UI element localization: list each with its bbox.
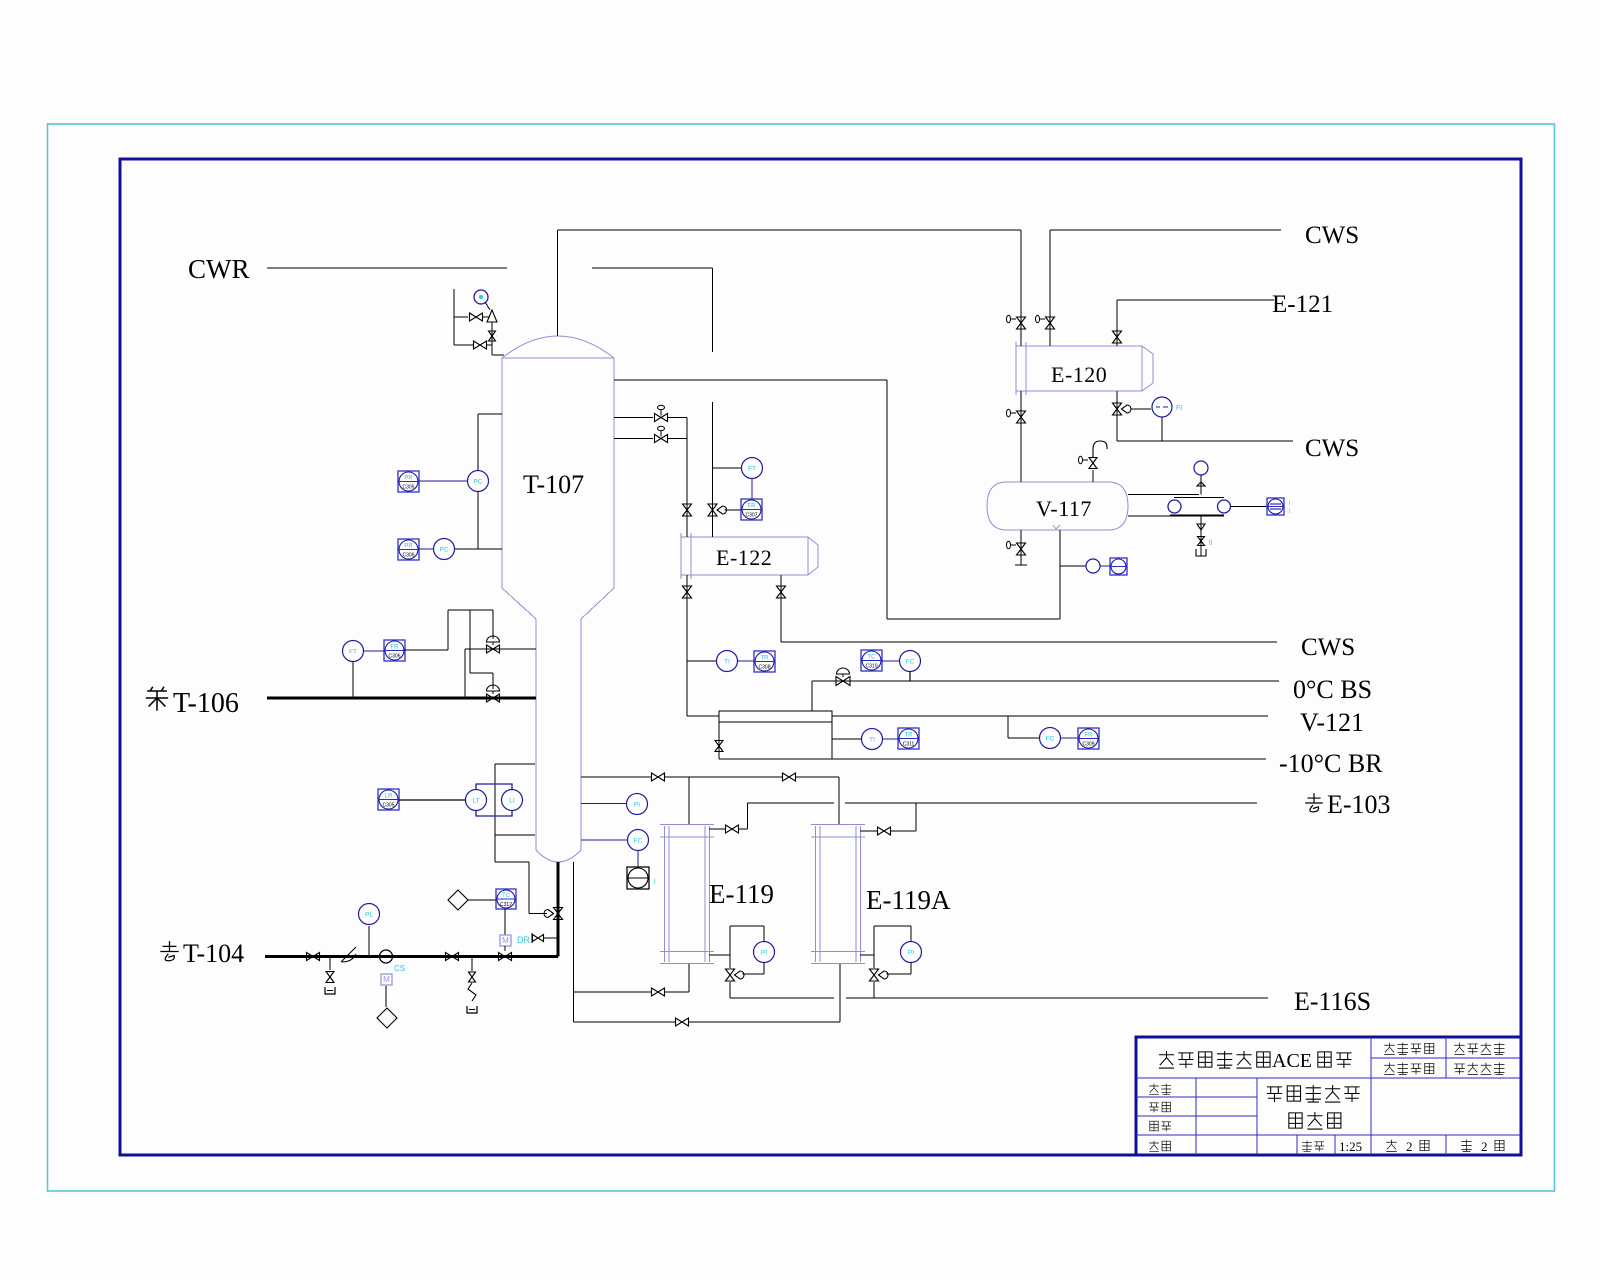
instrument circle on CWS line <box>1152 397 1172 417</box>
TI pair tap <box>832 738 862 740</box>
0C BS line from jacket <box>811 681 813 711</box>
svg-text:FT: FT <box>349 649 357 656</box>
svg-text:C307: C307 <box>746 513 758 519</box>
svg-text:l: l <box>1289 501 1290 507</box>
LI circles <box>466 790 487 811</box>
svg-text:LI: LI <box>509 798 515 805</box>
svg-text:l: l <box>1289 509 1290 515</box>
drum V-117 shell <box>987 482 1005 530</box>
valve <box>1046 317 1055 329</box>
jacket left drain to -10C BR line <box>718 722 720 759</box>
svg-text:FT: FT <box>748 466 756 473</box>
valve <box>652 988 665 996</box>
svg-text:PR: PR <box>404 476 413 482</box>
E-103 header <box>748 802 835 804</box>
gauge circle <box>1218 500 1231 513</box>
svg-text:CWS: CWS <box>1305 435 1359 462</box>
label 去E-103 <box>1305 793 1323 812</box>
T-107 side nozzles to E-122 <box>614 417 653 419</box>
M actuator <box>500 935 511 946</box>
FC pair on 0C BS <box>861 650 882 671</box>
valve <box>676 1018 689 1026</box>
valve <box>655 435 668 443</box>
svg-text:PC: PC <box>439 547 448 554</box>
svg-text:TR: TR <box>905 733 914 739</box>
exchanger E-119 shell <box>664 826 666 962</box>
instrument square LR <box>378 789 399 810</box>
svg-text:FC: FC <box>1046 736 1055 743</box>
instrument square FR V-121 <box>1078 728 1099 749</box>
feed line from T-106 (thick) <box>267 697 536 700</box>
M actuator <box>381 974 392 985</box>
E-122 branch: FT <box>713 467 742 469</box>
svg-text:E-116S: E-116S <box>1294 987 1371 1016</box>
CWR riser to E-122 <box>712 268 714 352</box>
drain branch 2 <box>471 957 473 972</box>
svg-text:C310: C310 <box>866 664 878 670</box>
cell 比例 1:25 <box>1302 1141 1312 1152</box>
gauge circle <box>1168 500 1181 513</box>
svg-text:CWR: CWR <box>188 254 250 284</box>
E-119A bottom drain <box>860 954 874 956</box>
instrument circle PI <box>627 794 648 815</box>
svg-text:TC: TC <box>868 655 877 661</box>
svg-text:FR: FR <box>748 504 757 510</box>
inner navy border frame <box>120 159 1521 1155</box>
svg-text:C306: C306 <box>389 654 401 660</box>
valve <box>726 969 735 981</box>
E-122 left outlet down to V-121 line <box>686 575 688 716</box>
column FC tap <box>581 839 628 841</box>
pilot circle <box>474 290 488 304</box>
valve <box>683 586 692 598</box>
title block grid <box>1370 1037 1372 1155</box>
drain funnel <box>325 987 335 994</box>
PI loop E-119 <box>730 925 764 927</box>
title block outer <box>1136 1037 1521 1155</box>
valve <box>836 677 850 686</box>
svg-text:C311: C311 <box>903 742 915 748</box>
FT tap <box>352 661 354 698</box>
valve <box>1017 317 1026 329</box>
column PI tap <box>581 803 627 805</box>
V-121 line FC tap <box>1007 716 1009 738</box>
level bridle on column bottom section <box>495 763 535 765</box>
relief angle valve <box>487 310 497 322</box>
svg-text:LT: LT <box>472 798 479 805</box>
svg-text:1:25: 1:25 <box>1339 1139 1362 1154</box>
label 去T-104 <box>160 941 178 961</box>
svg-text:LR: LR <box>385 794 393 800</box>
svg-text:CWS: CWS <box>1305 222 1359 249</box>
drain valve <box>1017 543 1026 555</box>
check valve <box>341 947 356 962</box>
-10C BR line <box>719 758 1266 760</box>
PL gauge <box>368 926 370 957</box>
valve <box>446 953 459 961</box>
E-116S line <box>730 997 834 999</box>
svg-text:E-119A: E-119A <box>866 885 951 915</box>
valve <box>1017 411 1026 423</box>
E-119A top outlet riser <box>860 830 877 832</box>
jacket right drain <box>831 722 833 759</box>
svg-text:PL: PL <box>365 912 373 919</box>
PC instrument tap on column <box>478 413 502 415</box>
svg-text:TI: TI <box>724 659 730 666</box>
feed bypass line <box>464 649 466 698</box>
instrument square LR <box>1110 558 1127 575</box>
E-119 top outlet riser <box>709 828 725 830</box>
outer cyan border frame <box>48 124 1555 1191</box>
svg-text:FR: FR <box>1085 733 1094 739</box>
svg-text:V-121: V-121 <box>1300 708 1364 737</box>
drawing title 精制工段控 <box>1267 1087 1282 1102</box>
svg-text:PI: PI <box>634 802 640 809</box>
cell 参赛设计 <box>1454 1043 1464 1055</box>
E-122 right outlet to CWS <box>780 575 782 642</box>
svg-text:E-119: E-119 <box>709 879 774 909</box>
valve <box>1113 331 1122 343</box>
drain funnel <box>467 1006 477 1013</box>
top pressure gauge <box>1200 475 1202 495</box>
V-117 boot weir mark <box>1053 525 1060 529</box>
LC output to bottoms valve <box>495 861 529 863</box>
instrument circle LT <box>1086 559 1100 573</box>
drain branch <box>329 957 331 971</box>
instrument circle PC2 <box>434 539 455 560</box>
svg-text:PI: PI <box>908 950 914 957</box>
valve <box>469 972 476 982</box>
instrument square PR <box>398 471 419 492</box>
svg-text:C308: C308 <box>759 665 771 671</box>
label 来T-106 <box>146 687 168 711</box>
svg-text:2: 2 <box>1406 1139 1413 1154</box>
valve <box>708 504 717 516</box>
valve <box>652 773 665 781</box>
valve <box>554 908 563 920</box>
svg-text:ACE: ACE <box>1272 1050 1312 1072</box>
svg-text:T-107: T-107 <box>523 470 584 499</box>
valve <box>1198 537 1205 546</box>
exchanger E-122 shell <box>680 533 682 579</box>
instrument square FR E-122 <box>741 499 762 520</box>
svg-text:FC: FC <box>906 659 915 666</box>
valve <box>683 504 692 516</box>
diamond symbol <box>448 890 468 910</box>
valve <box>487 645 500 653</box>
svg-text:C305: C305 <box>403 485 415 491</box>
valve <box>474 341 487 349</box>
svg-text:C305: C305 <box>383 803 395 809</box>
bottoms line (thick) to T-104 <box>557 862 560 957</box>
svg-text:C309: C309 <box>1083 742 1095 748</box>
instrument square AR <box>1267 498 1284 515</box>
instrument square TR <box>754 651 775 672</box>
valve <box>655 414 668 422</box>
valve <box>783 773 796 781</box>
svg-text:T-104: T-104 <box>183 939 244 968</box>
instrument circle FT E-122 <box>742 458 763 479</box>
valve <box>489 331 496 341</box>
CWR header line <box>267 267 507 269</box>
svg-text:ll: ll <box>1209 540 1213 547</box>
valve <box>870 969 879 981</box>
cell 设计阶段 <box>1384 1063 1394 1075</box>
svg-text:TR: TR <box>761 656 770 662</box>
svg-text:TC: TC <box>502 893 511 899</box>
V-117 vent gooseneck <box>1092 470 1094 482</box>
valve <box>470 313 483 321</box>
svg-text:M: M <box>383 975 390 984</box>
svg-text:M: M <box>502 936 509 945</box>
instrument square PR2 <box>398 539 419 560</box>
E-120 to V-117 line <box>1020 391 1022 482</box>
cell 初步设计 <box>1454 1064 1464 1074</box>
svg-text:CWS: CWS <box>1301 634 1355 661</box>
FV signal loop <box>404 649 448 651</box>
V-117 drain stub <box>1020 530 1022 565</box>
valve <box>777 586 786 598</box>
svg-text:C312: C312 <box>500 902 512 908</box>
instrument circle PC <box>468 471 489 492</box>
svg-text:C306: C306 <box>403 553 415 559</box>
svg-text:PR: PR <box>404 544 413 550</box>
cell sheet no <box>1386 1140 1396 1152</box>
CWS return line from E-120 <box>1050 229 1281 231</box>
V-117 bottom outlet / reflux to column <box>1059 530 1061 619</box>
column T-107 shell <box>502 336 614 358</box>
DR drain valve <box>544 937 558 939</box>
relief assembly at column top <box>453 289 455 345</box>
instrument square FR <box>384 640 405 661</box>
svg-text:TI: TI <box>869 737 875 744</box>
line to analyzer square <box>1231 506 1268 508</box>
svg-text:FI: FI <box>1176 405 1182 412</box>
E-121 line from E-120 <box>1116 300 1118 346</box>
PI loop E-119A <box>874 925 911 927</box>
E-120 inlet downcomer <box>1020 230 1022 346</box>
exchanger E-120 shell <box>1015 342 1017 395</box>
V-121 line <box>687 715 719 717</box>
svg-text:E-120: E-120 <box>1051 362 1107 387</box>
svg-text:E-103: E-103 <box>1327 790 1391 819</box>
svg-text:E-122: E-122 <box>716 545 772 570</box>
svg-text:-10°C BR: -10°C BR <box>1279 749 1383 778</box>
inline sample point <box>380 950 393 963</box>
svg-text:T-106: T-106 <box>173 688 239 719</box>
valve <box>715 741 723 752</box>
svg-text:0°C BS: 0°C BS <box>1293 675 1372 704</box>
E-120 bottom outlet to CWS <box>1116 391 1118 441</box>
svg-text:CS: CS <box>394 964 405 973</box>
valve <box>326 972 334 983</box>
E-120 outlet riser <box>1049 230 1051 346</box>
black instrument square <box>627 867 649 889</box>
instrument circle FT <box>343 641 364 662</box>
reboiler circulation lines <box>573 862 575 1022</box>
E-119 bottom drain <box>709 954 730 956</box>
valve <box>533 935 544 942</box>
svg-text:E-121: E-121 <box>1272 291 1333 318</box>
jacketed section on V-121 line <box>719 711 832 722</box>
svg-text:FR: FR <box>391 645 400 651</box>
svg-text:FC: FC <box>634 838 643 845</box>
instrument circle FC <box>628 830 649 851</box>
svg-text:DR: DR <box>517 935 530 945</box>
valve <box>487 694 500 702</box>
TI tap <box>687 660 716 662</box>
drawing title 制点图 <box>1289 1113 1302 1128</box>
diamond symbol <box>377 1008 397 1028</box>
valve <box>307 953 320 961</box>
valve <box>1113 403 1122 415</box>
overhead vapour line from column top <box>557 230 559 336</box>
svg-text:2: 2 <box>1481 1139 1488 1154</box>
valve <box>726 825 739 833</box>
row labels <box>1149 1084 1159 1095</box>
vent valve <box>1089 458 1097 469</box>
bottom drain train <box>1200 516 1202 556</box>
valve <box>878 827 891 835</box>
cell 设计项目 <box>1384 1043 1394 1055</box>
svg-text:PI: PI <box>761 950 767 957</box>
V-117 right assembly: gauges <box>1128 494 1199 496</box>
svg-text:V-117: V-117 <box>1036 496 1092 521</box>
E-119/E-119A feed line from column <box>581 776 651 778</box>
company name <box>1159 1051 1174 1068</box>
svg-text:PC: PC <box>473 479 482 486</box>
FV signal branch to feed valve <box>469 610 471 673</box>
exchanger E-119A shell <box>815 826 817 962</box>
valve <box>499 953 512 961</box>
